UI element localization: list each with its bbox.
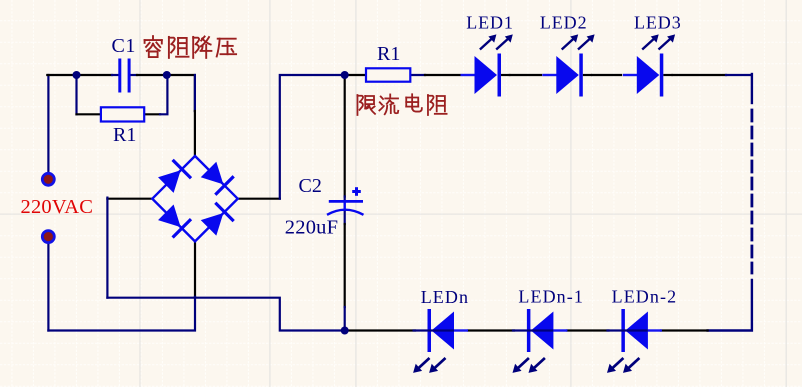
svg-text:LED1: LED1 (466, 13, 514, 33)
svg-text:LED2: LED2 (540, 13, 588, 33)
svg-text:LED3: LED3 (634, 13, 682, 33)
svg-text:R1: R1 (113, 124, 136, 146)
svg-text:220uF: 220uF (285, 216, 338, 238)
svg-text:R1: R1 (377, 43, 400, 65)
svg-text:LEDn: LEDn (421, 287, 469, 307)
svg-text:LEDn-1: LEDn-1 (518, 287, 584, 307)
svg-text:C2: C2 (299, 175, 322, 197)
svg-text:220VAC: 220VAC (21, 196, 94, 218)
svg-text:LEDn-2: LEDn-2 (612, 287, 678, 307)
svg-text:C1: C1 (112, 35, 136, 57)
